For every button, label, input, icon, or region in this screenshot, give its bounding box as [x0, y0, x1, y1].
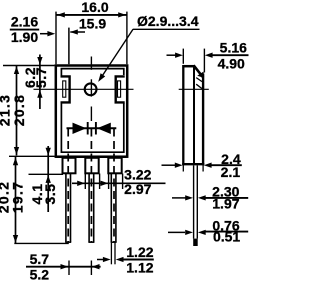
dimension 3.22/2.97 shoulder width — [72, 167, 166, 197]
svg-text:2.97: 2.97 — [124, 181, 151, 197]
vertical centerline dashes — [90, 57, 92, 122]
svg-text:5.7: 5.7 — [30, 251, 50, 267]
dimension 5.16/4.90 body thickness — [167, 40, 249, 73]
svg-text:2.1: 2.1 — [221, 164, 241, 180]
dimension 1.22/1.12 lead tip width — [97, 243, 154, 276]
dimension 2.4/2.1 lead root width — [162, 151, 242, 180]
svg-text:20.8: 20.8 — [11, 94, 27, 126]
svg-text:5.2: 5.2 — [30, 267, 50, 283]
package body outer outline (front view) — [56, 66, 127, 158]
svg-text:0.51: 0.51 — [213, 229, 240, 245]
right lead — [111, 173, 117, 242]
side view lead — [193, 165, 198, 246]
internal dual-diode symbol — [67, 122, 117, 135]
hole horizontal centerline — [34, 88, 134, 90]
dimension 2.30/1.97 lead thickness — [172, 184, 248, 212]
svg-text:1.22: 1.22 — [126, 244, 153, 260]
svg-text:1.90: 1.90 — [11, 29, 38, 45]
lead shoulders — [63, 158, 122, 174]
dimension 4.1/3.5 shoulder length — [29, 146, 58, 212]
svg-text:Ø2.9...3.4: Ø2.9...3.4 — [137, 13, 199, 29]
right side notch — [116, 76, 125, 102]
svg-text:3.5: 3.5 — [42, 184, 58, 205]
dimension 2.16/1.90 body edge to lead axis — [10, 14, 85, 64]
dimension 5.7/5.2 lead pitch — [26, 251, 101, 283]
center lead — [88, 173, 94, 242]
left lead — [65, 173, 71, 242]
side view body — [179, 65, 209, 165]
package body inner outline (front view) — [61, 69, 123, 153]
hole diameter label — [98, 13, 199, 82]
leg dashed centerlines — [68, 129, 114, 242]
svg-text:1.97: 1.97 — [212, 195, 239, 211]
svg-text:5.7: 5.7 — [33, 67, 49, 88]
dimension 0.76/0.51 lead tip thickness — [168, 217, 248, 244]
dimension 20.2/19.7 lead length — [0, 157, 25, 243]
svg-text:2.16: 2.16 — [11, 14, 38, 30]
svg-text:16.0: 16.0 — [81, 0, 108, 15]
svg-text:15.9: 15.9 — [79, 15, 106, 31]
dimension 6.2/5.7 top edge to hole axis — [22, 55, 49, 110]
svg-text:5.16: 5.16 — [220, 40, 247, 56]
svg-text:4.90: 4.90 — [218, 56, 245, 72]
dimension 16.0/15.9 package width — [56, 0, 127, 64]
svg-text:1.12: 1.12 — [126, 259, 153, 275]
svg-text:19.7: 19.7 — [9, 181, 25, 213]
left side notch — [61, 76, 70, 102]
mounting hole — [85, 83, 97, 95]
dimension 21.3/20.8 body height — [0, 66, 27, 156]
left extension lines — [3, 66, 69, 244]
